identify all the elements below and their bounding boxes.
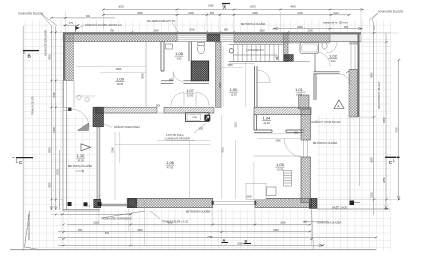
svg-text:7780: 7780 bbox=[207, 236, 213, 239]
svg-text:1.06: 1.06 bbox=[166, 160, 175, 165]
svg-text:TRVALÁ ZELEŇ: TRVALÁ ZELEŇ bbox=[32, 97, 35, 115]
bathroom 1.08 wc bbox=[197, 44, 204, 54]
wing west partition bbox=[255, 66, 258, 107]
svg-text:8925: 8925 bbox=[48, 147, 51, 153]
interior pier at terrace bbox=[93, 107, 104, 127]
svg-text:3000: 3000 bbox=[118, 5, 124, 8]
svg-text:2000: 2000 bbox=[189, 29, 195, 32]
north wall inner face line bbox=[63, 41, 361, 43]
extension verticals bottom bbox=[63, 209, 312, 247]
svg-text:VONKAJŠIE ZARIADENIE: VONKAJŠIE ZARIADENIE bbox=[102, 218, 132, 221]
leader bottom-left corner bbox=[25, 211, 43, 250]
door 1.01 swing bbox=[326, 42, 337, 53]
wing east wall hatch upper bbox=[301, 109, 311, 140]
tick marks bbox=[50, 9, 400, 247]
north wall pier between windows bbox=[207, 34, 220, 41]
top dim line left stub bbox=[52, 17, 116, 19]
radiator in 1.05 bbox=[284, 171, 292, 187]
svg-text:1460: 1460 bbox=[208, 5, 214, 8]
svg-text:š.15,5x280=17x: š.15,5x280=17x bbox=[246, 49, 264, 52]
partition wall 1.08 west bbox=[161, 42, 164, 72]
svg-text:1890: 1890 bbox=[297, 26, 303, 29]
bathroom 1.08 washbasin bbox=[166, 44, 173, 49]
north wall hatch segment west bbox=[63, 34, 177, 41]
interior floor white top bbox=[63, 32, 361, 115]
bathtub room 1.02 bbox=[300, 43, 319, 54]
svg-text:1.04: 1.04 bbox=[263, 116, 272, 121]
svg-text:1.07: 1.07 bbox=[186, 88, 195, 93]
partition between 1.09 and hall (vertical) bbox=[145, 42, 147, 107]
svg-text:NAVRHOVANÝ OBJEKT: NAVRHOVANÝ OBJEKT bbox=[378, 81, 381, 109]
svg-text:zateplenie hr. 200 mm: zateplenie hr. 200 mm bbox=[323, 22, 348, 25]
svg-text:5,00: 5,00 bbox=[331, 60, 336, 63]
south wall east hatch segment bbox=[255, 198, 311, 207]
dim numbers top bbox=[69, 5, 349, 71]
svg-text:1.05: 1.05 bbox=[276, 162, 285, 167]
svg-text:13,50: 13,50 bbox=[230, 93, 237, 96]
svg-text:760: 760 bbox=[110, 29, 115, 32]
partition 1.01/1.02 vertical bbox=[314, 45, 316, 51]
wing door swing bbox=[284, 138, 303, 157]
paving edge line east of house bbox=[317, 208, 390, 210]
kitchen fireplace box bbox=[186, 113, 210, 122]
svg-text:KRB: KRB bbox=[193, 117, 198, 119]
corner flag bbox=[76, 26, 80, 30]
svg-text:1565: 1565 bbox=[227, 64, 233, 67]
svg-text:390: 390 bbox=[78, 229, 83, 232]
svg-text:3730: 3730 bbox=[53, 92, 56, 98]
terrace inner paving line bbox=[73, 81, 75, 108]
south sliding door gap bbox=[213, 201, 255, 204]
svg-text:800: 800 bbox=[169, 79, 174, 82]
south wall of main house : west hatch segment bbox=[129, 198, 213, 207]
svg-text:1890: 1890 bbox=[252, 12, 258, 15]
living room inner dim lines bbox=[115, 132, 210, 200]
door 1.07 east swing bbox=[196, 93, 209, 106]
terrace east wall (glazed) bbox=[97, 127, 100, 199]
left vertical chains bbox=[51, 26, 55, 210]
terrace door jamb + swing bbox=[68, 108, 72, 112]
svg-text:250: 250 bbox=[199, 128, 204, 131]
svg-text:10,90: 10,90 bbox=[277, 168, 284, 171]
svg-text:BETÓNOVÁ DLAŽBA: BETÓNOVÁ DLAŽBA bbox=[68, 165, 93, 168]
east window bbox=[349, 44, 360, 70]
leader top-left bbox=[41, 14, 57, 27]
svg-text:7000: 7000 bbox=[396, 127, 399, 133]
terrace slope triangle bbox=[81, 144, 91, 151]
partition 1.02 south bbox=[314, 72, 340, 100]
downspout D west1 bbox=[68, 202, 72, 206]
interior floor white bottom wing bbox=[100, 115, 317, 209]
section marker C right bbox=[385, 156, 400, 158]
window W2 north bbox=[220, 34, 234, 41]
interior dim horizontals bbox=[75, 66, 300, 134]
east exterior wall bbox=[358, 33, 360, 117]
stair landing block bbox=[284, 55, 293, 62]
right upper dim bbox=[274, 28, 362, 30]
partition wall 1.08 east bbox=[189, 42, 191, 62]
interior small dims bbox=[156, 64, 299, 199]
svg-text:2925: 2925 bbox=[219, 82, 222, 88]
shower dark block bbox=[191, 61, 209, 81]
stair room west wall bbox=[284, 33, 289, 62]
door 1.02 swing bbox=[316, 52, 330, 66]
north wall fine hatch segment east bbox=[330, 34, 361, 41]
east wall lower thin edge to D marker bbox=[350, 117, 360, 200]
svg-text:1.00: 1.00 bbox=[230, 87, 239, 92]
svg-text:8350: 8350 bbox=[383, 117, 386, 123]
svg-text:1500: 1500 bbox=[188, 12, 194, 15]
svg-text:1.01: 1.01 bbox=[295, 87, 304, 92]
svg-text:1365: 1365 bbox=[53, 127, 56, 133]
svg-text:9280: 9280 bbox=[237, 243, 243, 246]
svg-text:B: B bbox=[245, 240, 248, 244]
svg-text:22,98: 22,98 bbox=[263, 122, 270, 125]
svg-text:5035: 5035 bbox=[57, 169, 60, 175]
leader top-right bbox=[369, 13, 378, 30]
svg-text:4250: 4250 bbox=[48, 54, 51, 60]
extension verticals top bbox=[65, 11, 361, 34]
svg-text:14,66: 14,66 bbox=[296, 93, 303, 96]
fireplace glyph bbox=[204, 115, 210, 121]
dimension ticks defs bbox=[50, 9, 400, 247]
svg-text:1800: 1800 bbox=[246, 196, 252, 199]
svg-text:47,60: 47,60 bbox=[167, 166, 174, 169]
wall under stairs bbox=[229, 61, 310, 63]
svg-text:1.09: 1.09 bbox=[116, 77, 125, 82]
extension horizontals left bbox=[51, 32, 63, 214]
top dim line 1 bbox=[103, 9, 364, 11]
dim numbers left rotated bbox=[48, 54, 144, 188]
property leader SE bbox=[312, 210, 314, 251]
svg-text:TRVALÁ ZELEŇ + 1,05: TRVALÁ ZELEŇ + 1,05 bbox=[162, 221, 189, 224]
terrace east wall end block bbox=[94, 199, 101, 207]
dim line below 1.04 bbox=[257, 137, 300, 139]
room 1.04 west wall bbox=[254, 115, 257, 130]
cupboard 1.05 bbox=[267, 187, 277, 196]
floor box lower bbox=[246, 184, 266, 200]
south wall east corner block bbox=[309, 198, 317, 208]
svg-text:2850: 2850 bbox=[383, 177, 386, 183]
section marker A top bbox=[222, 3, 230, 5]
extension horizontals right bbox=[317, 33, 399, 209]
left short dim bbox=[63, 24, 78, 26]
svg-text:300: 300 bbox=[86, 15, 91, 18]
svg-text:4250: 4250 bbox=[137, 229, 143, 232]
wing east wall upper block bbox=[299, 95, 309, 109]
bottom frame line bbox=[10, 249, 376, 251]
downspout D east bbox=[350, 201, 355, 206]
room 1.04 south wall bbox=[254, 130, 304, 132]
terrace step wedge bbox=[78, 123, 89, 131]
door 1.02 south swing bbox=[340, 74, 350, 84]
terrace outline bbox=[63, 81, 100, 212]
svg-text:600: 600 bbox=[105, 232, 110, 235]
wing east door gap bbox=[304, 140, 308, 157]
svg-text:1.02: 1.02 bbox=[329, 54, 338, 59]
window edge ticks above band bbox=[131, 31, 289, 34]
svg-text:38,80: 38,80 bbox=[117, 83, 124, 86]
wing north wall (hatched band) bbox=[254, 107, 311, 115]
wc room 1.02 bbox=[322, 42, 327, 49]
svg-text:4,90: 4,90 bbox=[177, 57, 182, 60]
bottom dim lines bbox=[60, 213, 131, 215]
svg-text:VONKAJŠIE ŽALÚZIE: VONKAJŠIE ŽALÚZIE bbox=[378, 11, 403, 14]
svg-text:1240: 1240 bbox=[153, 29, 159, 32]
staircase bbox=[229, 45, 284, 62]
south wall west end block bbox=[127, 198, 137, 207]
svg-text:2980: 2980 bbox=[137, 12, 143, 15]
svg-text:3620: 3620 bbox=[48, 182, 51, 188]
paving grid area bbox=[23, 20, 391, 251]
north wall hatch segment middle bbox=[234, 34, 330, 43]
svg-text:900: 900 bbox=[294, 132, 299, 135]
dim circles terrace bbox=[77, 95, 81, 99]
right vertical chains bbox=[374, 25, 399, 215]
svg-text:905: 905 bbox=[156, 104, 161, 107]
svg-text:4200: 4200 bbox=[167, 222, 173, 225]
svg-text:1800: 1800 bbox=[259, 29, 265, 32]
svg-text:4800: 4800 bbox=[116, 68, 122, 71]
svg-text:8370: 8370 bbox=[250, 5, 256, 8]
svg-text:3300: 3300 bbox=[93, 222, 99, 225]
svg-text:A: A bbox=[223, 5, 226, 10]
svg-text:4125: 4125 bbox=[371, 157, 374, 163]
svg-text:4200: 4200 bbox=[371, 72, 374, 78]
window W1 north bbox=[177, 34, 207, 41]
section marker B top bbox=[23, 50, 39, 52]
interior wall south of rooms 1.08/1.07 (hatched band) bbox=[96, 107, 157, 113]
svg-text:A: A bbox=[223, 239, 226, 243]
svg-text:2140: 2140 bbox=[307, 29, 313, 32]
south door jambs bbox=[212, 201, 214, 205]
svg-text:1.08: 1.08 bbox=[175, 51, 184, 56]
svg-text:BETÓNOVÁ DLAŽBA: BETÓNOVÁ DLAŽBA bbox=[313, 142, 338, 145]
top dim line 2 bbox=[103, 14, 349, 16]
svg-text:175: 175 bbox=[69, 22, 74, 25]
svg-text:DAŽĎOVÝ ZVOD DN 100: DAŽĎOVÝ ZVOD DN 100 bbox=[312, 121, 342, 124]
svg-text:NÁŠĽAP OCEĽOVANÁ: NÁŠĽAP OCEĽOVANÁ bbox=[114, 126, 140, 129]
wall south of 1.08 bbox=[161, 81, 209, 84]
detail triangle A right bbox=[334, 100, 344, 109]
svg-text:3040: 3040 bbox=[142, 73, 145, 79]
svg-text:BETÓNOVÁ DLAŽBA: BETÓNOVÁ DLAŽBA bbox=[186, 211, 211, 214]
svg-text:1 ĽAHKOVÁ ÚROVEŇ: 1 ĽAHKOVÁ ÚROVEŇ bbox=[165, 138, 190, 141]
partition east of hall 1.07 bbox=[216, 42, 222, 107]
svg-text:1340: 1340 bbox=[112, 147, 115, 153]
section marker B bottom bbox=[244, 243, 252, 245]
svg-text:205: 205 bbox=[344, 26, 349, 29]
svg-text:1.10: 1.10 bbox=[77, 153, 86, 158]
small wall 1.05 divider bbox=[254, 155, 301, 157]
svg-text:1490: 1490 bbox=[275, 139, 281, 142]
svg-text:2800: 2800 bbox=[280, 222, 286, 225]
section marker A bottom bbox=[222, 242, 229, 244]
svg-text:890: 890 bbox=[224, 29, 229, 32]
svg-text:BETÓNOVÁ DLAŽBA: BETÓNOVÁ DLAŽBA bbox=[241, 23, 266, 26]
downspout D west mid bbox=[84, 202, 88, 206]
north exterior wall outer face bbox=[63, 32, 361, 34]
gutter leader bottom right bbox=[303, 221, 328, 223]
svg-text:VONKAJŠIE ŽALÚZIE: VONKAJŠIE ŽALÚZIE bbox=[18, 13, 43, 16]
west window (glass line) bbox=[63, 81, 74, 108]
svg-text:SKLADBA PODLAHY P4: SKLADBA PODLAHY P4 bbox=[147, 20, 175, 23]
svg-text:5450: 5450 bbox=[273, 229, 279, 232]
interior dim verticals bbox=[145, 46, 254, 246]
downspout D west2 bbox=[98, 202, 102, 206]
door 1.08 swing bbox=[173, 72, 183, 82]
svg-text:950: 950 bbox=[210, 12, 215, 15]
dim numbers bottom bbox=[78, 222, 286, 246]
dim numbers right rotated bbox=[371, 72, 399, 198]
svg-text:10,95: 10,95 bbox=[187, 94, 194, 97]
room labels bbox=[68, 51, 338, 172]
svg-text:1210: 1210 bbox=[333, 12, 339, 15]
wing east wall hatch lower bbox=[301, 157, 311, 203]
door 1.03 swing bbox=[258, 70, 271, 83]
svg-text:2105: 2105 bbox=[297, 12, 303, 15]
svg-text:VONKAJŠÍ OBRUBNÍK: VONKAJŠÍ OBRUBNÍK bbox=[45, 30, 48, 56]
west exterior wall bbox=[63, 32, 65, 80]
low wall to south band bbox=[101, 204, 128, 206]
svg-text:30,09: 30,09 bbox=[77, 159, 84, 162]
section marker C left bbox=[16, 157, 33, 159]
wall stub west of terrace door bbox=[63, 108, 68, 111]
door 1.07 west swing bbox=[171, 93, 184, 106]
svg-text:1525: 1525 bbox=[235, 122, 238, 128]
svg-text:1250: 1250 bbox=[371, 192, 374, 198]
svg-text:4045: 4045 bbox=[290, 5, 296, 8]
